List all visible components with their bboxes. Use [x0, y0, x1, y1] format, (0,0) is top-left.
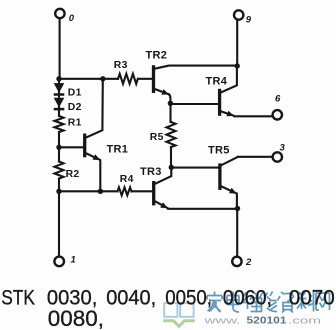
- svg-text:R5: R5: [150, 132, 164, 143]
- svg-text:0: 0: [69, 13, 75, 24]
- svg-text:0040,: 0040,: [106, 286, 156, 310]
- svg-text:520101: 520101: [247, 316, 288, 327]
- svg-text:STK: STK: [1, 286, 35, 310]
- svg-text:0050,: 0050,: [165, 286, 212, 310]
- svg-text:www.: www.: [203, 316, 241, 327]
- svg-text:R4: R4: [120, 174, 134, 185]
- svg-text:R1: R1: [68, 117, 82, 128]
- svg-text:TR4: TR4: [206, 76, 228, 88]
- svg-text:R3: R3: [114, 60, 128, 71]
- svg-text:D2: D2: [68, 102, 82, 113]
- svg-text:TR3: TR3: [140, 166, 162, 178]
- svg-text:TR1: TR1: [107, 144, 129, 156]
- svg-text:6: 6: [275, 94, 281, 105]
- svg-text:0060,: 0060,: [223, 286, 272, 310]
- svg-text:0080,: 0080,: [48, 306, 104, 330]
- svg-text:.com: .com: [288, 316, 321, 327]
- svg-text:TR2: TR2: [146, 49, 168, 61]
- svg-text:R2: R2: [66, 169, 80, 180]
- svg-text:2: 2: [245, 257, 252, 268]
- svg-text:TR5: TR5: [208, 145, 230, 157]
- svg-text:0070: 0070: [289, 286, 335, 310]
- svg-text:9: 9: [246, 15, 252, 26]
- svg-text:3: 3: [280, 143, 286, 154]
- svg-text:D1: D1: [68, 87, 82, 98]
- svg-text:1: 1: [71, 255, 76, 266]
